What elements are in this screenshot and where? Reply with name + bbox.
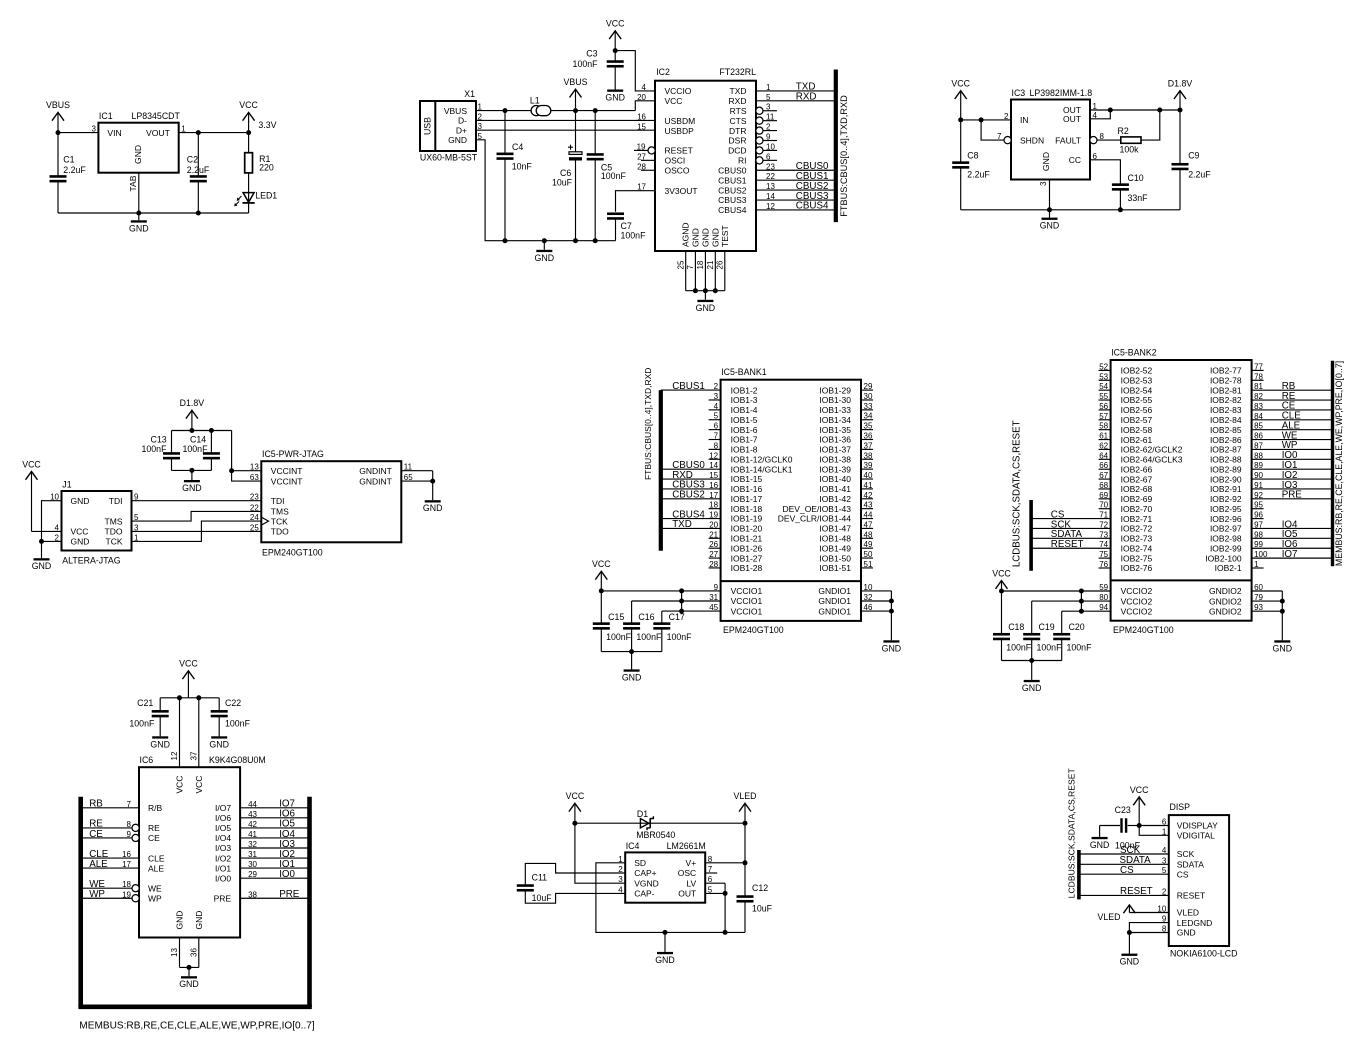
wire D- to USBDM [476, 119, 655, 121]
svg-text:23: 23 [250, 493, 259, 502]
svg-text:PRE: PRE [1282, 490, 1303, 501]
svg-text:3: 3 [1039, 181, 1048, 186]
svg-text:29: 29 [864, 382, 873, 391]
svg-text:C3: C3 [586, 49, 597, 59]
bus label MEMBUS bottom [79, 1021, 315, 1032]
svg-text:IOB2-57: IOB2-57 [1121, 415, 1153, 425]
svg-text:VCC: VCC [194, 776, 204, 794]
pin numbers IC3 [997, 102, 1104, 186]
bus label MEMBUS right [1334, 361, 1344, 566]
svg-text:20: 20 [637, 93, 646, 102]
wire X1 GND down [476, 140, 616, 243]
svg-text:PRE: PRE [214, 893, 232, 903]
svg-text:IOB2-66: IOB2-66 [1121, 464, 1153, 474]
svg-text:100nF: 100nF [142, 444, 168, 454]
svg-text:12: 12 [766, 202, 775, 211]
svg-text:GND: GND [882, 643, 902, 653]
ground symbol at DISP [1120, 954, 1140, 967]
resistor R2 100k [1097, 110, 1160, 155]
power flag VCC at IC6 [179, 659, 198, 698]
svg-text:1: 1 [181, 124, 186, 133]
handshake stub pins RTS CTS DTR DSR DCD RI [756, 103, 777, 115]
svg-text:37: 37 [189, 751, 198, 760]
svg-text:SHDN: SHDN [1020, 135, 1044, 145]
svg-text:8: 8 [714, 441, 719, 450]
ground symbol BANK2 caps [1022, 680, 1042, 693]
svg-text:WE: WE [148, 883, 162, 893]
svg-text:IC5-BANK2: IC5-BANK2 [1111, 348, 1157, 358]
wire gnd rail block C [961, 180, 1180, 213]
svg-text:10: 10 [864, 583, 873, 592]
svg-text:IOB2-67: IOB2-67 [1121, 474, 1153, 484]
pin bubbles and numbers IC2 left [637, 83, 656, 192]
wire VCC to IC6 pins 12 37 [160, 695, 219, 767]
svg-text:86: 86 [1254, 432, 1263, 441]
svg-text:ALE: ALE [148, 863, 164, 873]
svg-text:32: 32 [864, 593, 873, 602]
bus MEMBUS U shape [78, 797, 311, 1007]
svg-text:C14: C14 [190, 435, 206, 445]
svg-text:IOB1-8: IOB1-8 [731, 445, 758, 455]
svg-text:4: 4 [642, 83, 647, 92]
svg-text:GNDINT: GNDINT [359, 466, 392, 476]
svg-text:IOB1-36: IOB1-36 [819, 435, 851, 445]
svg-text:IOB1-39: IOB1-39 [819, 464, 851, 474]
svg-text:GND: GND [655, 955, 675, 965]
svg-text:CBUS2: CBUS2 [718, 185, 747, 195]
svg-text:RB: RB [89, 799, 103, 810]
wire OUT net to D1.8V [1090, 108, 1183, 119]
svg-text:RE: RE [148, 823, 160, 833]
svg-text:75: 75 [1099, 550, 1108, 559]
wire RXD net label [756, 92, 836, 103]
IC6 ground pins 13 36 [170, 938, 199, 977]
svg-text:MEMBUS:RB,RE,CE,CLE,ALE,WE,WP,: MEMBUS:RB,RE,CE,CLE,ALE,WE,WP,PRE,IO[0..… [79, 1021, 315, 1032]
power flag VCC at BANK2 [992, 568, 1011, 591]
svg-text:IOB2-82: IOB2-82 [1210, 395, 1242, 405]
svg-text:54: 54 [1099, 382, 1108, 391]
svg-text:CBUS4: CBUS4 [718, 205, 747, 215]
capacitor C13 100nF [142, 431, 181, 471]
svg-text:C2: C2 [187, 155, 198, 165]
svg-text:12: 12 [709, 451, 718, 460]
svg-text:IOB2-92: IOB2-92 [1210, 494, 1242, 504]
svg-text:IOB1-21: IOB1-21 [731, 534, 763, 544]
IC6 left pin wires [81, 799, 139, 810]
svg-text:88: 88 [1254, 451, 1263, 460]
wire VCC to IN [958, 117, 1011, 122]
svg-text:25: 25 [250, 523, 259, 532]
IC6 right pin wires [240, 799, 309, 810]
svg-text:IOB2-83: IOB2-83 [1210, 405, 1242, 415]
svg-text:20: 20 [709, 520, 718, 529]
wire VBUS to VIN [56, 130, 99, 135]
svg-text:IOB1-14/GCLK1: IOB1-14/GCLK1 [731, 464, 793, 474]
svg-text:VLED: VLED [734, 791, 757, 801]
wire D+ to USBDP [476, 129, 655, 131]
svg-text:C22: C22 [225, 698, 241, 708]
svg-text:C11: C11 [532, 873, 548, 883]
svg-text:GND: GND [179, 979, 199, 989]
svg-text:IOB2-73: IOB2-73 [1121, 534, 1153, 544]
svg-text:LM2661M: LM2661M [667, 841, 706, 851]
svg-text:IC1: IC1 [99, 111, 113, 121]
svg-text:IOB2-76: IOB2-76 [1121, 563, 1153, 573]
svg-text:ALTERA-JTAG: ALTERA-JTAG [62, 556, 120, 566]
svg-text:C1: C1 [63, 155, 74, 165]
svg-text:LCDBUS:SCK,SDATA,CS,RESET: LCDBUS:SCK,SDATA,CS,RESET [1066, 768, 1076, 899]
svg-text:7: 7 [686, 265, 695, 270]
svg-text:37: 37 [864, 441, 873, 450]
svg-text:7: 7 [127, 800, 132, 809]
svg-text:GND: GND [1177, 928, 1196, 938]
svg-text:7: 7 [714, 432, 719, 441]
svg-text:IOB1-47: IOB1-47 [819, 524, 851, 534]
capacitor C7 100nF [607, 212, 646, 240]
svg-text:TXD: TXD [672, 519, 692, 530]
wire GNDIO1 nets [861, 583, 894, 640]
svg-text:2.2uF: 2.2uF [1188, 170, 1211, 180]
ground symbol GNDIO1 [882, 640, 902, 653]
svg-text:52: 52 [1099, 362, 1108, 371]
ground symbol under C3 [605, 90, 625, 103]
capacitor C12 10uF [737, 823, 773, 932]
svg-text:IOB1-7: IOB1-7 [731, 435, 758, 445]
svg-text:IOB2-68: IOB2-68 [1121, 484, 1153, 494]
svg-text:VDIGITAL: VDIGITAL [1177, 831, 1215, 841]
svg-text:FTBUS:CBUS[0..4],TXD,RXD: FTBUS:CBUS[0..4],TXD,RXD [643, 368, 653, 480]
svg-text:IC2: IC2 [656, 67, 670, 77]
svg-text:45: 45 [709, 603, 718, 612]
svg-text:C19: C19 [1039, 622, 1055, 632]
capacitor C22 100nF [211, 698, 251, 737]
svg-text:2.2uF: 2.2uF [967, 170, 990, 180]
svg-text:57: 57 [1099, 412, 1108, 421]
svg-text:19: 19 [122, 890, 131, 899]
bus FTBUS bar at BANK1 [659, 390, 663, 551]
bus label FTBUS:CBUS[0..4],TXD,RXD [839, 95, 849, 217]
svg-text:GND: GND [605, 93, 625, 103]
svg-text:C6: C6 [560, 168, 571, 178]
wire VBUS net [476, 101, 655, 113]
pin 7 OSC stub [705, 872, 717, 874]
wire D1 cathode to VLED [650, 821, 747, 826]
svg-text:CBUS0: CBUS0 [718, 165, 747, 175]
svg-text:VBUS: VBUS [564, 77, 588, 87]
svg-text:VCC: VCC [239, 100, 258, 110]
svg-text:IOB1-27: IOB1-27 [731, 553, 763, 563]
svg-text:IO7: IO7 [1282, 549, 1298, 560]
svg-text:GNDIO2: GNDIO2 [1209, 606, 1242, 616]
svg-text:98: 98 [1254, 530, 1263, 539]
svg-text:GND: GND [700, 228, 710, 247]
LED1 [234, 173, 277, 213]
svg-text:55: 55 [1099, 392, 1108, 401]
svg-text:VCC: VCC [22, 459, 41, 469]
svg-text:IOB2-52: IOB2-52 [1121, 366, 1153, 376]
power flag VLED at DISP [1098, 905, 1169, 922]
svg-text:91: 91 [1254, 481, 1263, 490]
svg-text:39: 39 [864, 461, 873, 470]
svg-text:CBUS1: CBUS1 [672, 381, 705, 392]
wire VCC to VDISPLAY VDIGITAL [1137, 823, 1169, 835]
resistor R1 220 [245, 133, 274, 173]
svg-text:74: 74 [1099, 540, 1108, 549]
svg-text:RESET: RESET [1051, 539, 1084, 550]
wire SDATA net [1079, 855, 1169, 866]
svg-text:97: 97 [1254, 520, 1263, 529]
capacitor C10 33nF [1112, 173, 1148, 210]
svg-text:GND: GND [32, 561, 52, 571]
svg-text:67: 67 [1099, 471, 1108, 480]
svg-text:81: 81 [1254, 382, 1263, 391]
svg-text:C12: C12 [752, 883, 768, 893]
svg-text:CBUS3: CBUS3 [718, 195, 747, 205]
svg-text:CBUS1: CBUS1 [718, 175, 747, 185]
svg-text:23: 23 [766, 162, 775, 171]
svg-text:GND: GND [1090, 840, 1110, 850]
svg-text:RTS: RTS [730, 106, 747, 116]
capacitor C1 2.2uF [50, 133, 87, 213]
svg-text:VLED: VLED [1177, 908, 1199, 918]
svg-text:38: 38 [248, 890, 257, 899]
svg-text:93: 93 [1254, 603, 1263, 612]
svg-text:GND: GND [150, 739, 170, 749]
svg-text:84: 84 [1254, 412, 1263, 421]
svg-text:IOB2-96: IOB2-96 [1210, 514, 1242, 524]
svg-text:VCCINT: VCCINT [271, 466, 303, 476]
wire TMS [132, 511, 262, 521]
svg-text:72: 72 [1099, 520, 1108, 529]
svg-text:IOB1-50: IOB1-50 [819, 553, 851, 563]
svg-text:100nF: 100nF [1067, 643, 1093, 653]
svg-text:GND: GND [696, 303, 716, 313]
capacitor C9 2.2uF [1172, 110, 1212, 210]
svg-text:VCCIO1: VCCIO1 [731, 606, 763, 616]
svg-text:33nF: 33nF [1128, 193, 1149, 203]
svg-text:CE: CE [148, 833, 160, 843]
svg-text:TDO: TDO [105, 527, 123, 537]
wire TDI [132, 500, 262, 502]
svg-text:43: 43 [864, 501, 873, 510]
capacitor C21 100nF [129, 698, 168, 737]
svg-text:LCDBUS:SCK,SDATA,CS,RESET: LCDBUS:SCK,SDATA,CS,RESET [1012, 420, 1023, 567]
svg-text:89: 89 [1254, 461, 1263, 470]
svg-text:D1.8V: D1.8V [180, 398, 205, 408]
svg-text:3V3OUT: 3V3OUT [665, 186, 698, 196]
power flag VBUS at C6 [564, 77, 588, 111]
power flag VCC 3.3V [239, 100, 276, 132]
svg-text:WP: WP [89, 889, 105, 900]
svg-text:VCC: VCC [951, 79, 970, 89]
svg-text:IOB1-37: IOB1-37 [819, 445, 851, 455]
wire LV OUT tie [705, 883, 727, 932]
svg-text:10: 10 [766, 142, 775, 151]
svg-text:IOB1-34: IOB1-34 [819, 415, 851, 425]
wire TCK [132, 521, 262, 541]
svg-text:85: 85 [1254, 422, 1263, 431]
svg-text:VCCIO2: VCCIO2 [1121, 606, 1153, 616]
wire SD to gnd rail [596, 863, 745, 935]
capacitor C4 10nF [497, 111, 533, 241]
svg-text:IOB2-70: IOB2-70 [1121, 504, 1153, 514]
wire caps gnd BANK2 [1002, 658, 1062, 680]
connector X1 USB UX60-MB-5ST [420, 89, 483, 163]
power flag D1.8V [1168, 79, 1193, 111]
svg-text:VCC: VCC [71, 527, 89, 537]
svg-text:VOUT: VOUT [146, 128, 171, 138]
svg-text:30: 30 [248, 860, 257, 869]
svg-text:GND: GND [622, 672, 642, 682]
svg-text:IOB2-91: IOB2-91 [1210, 484, 1242, 494]
svg-text:IOB1-30: IOB1-30 [819, 395, 851, 405]
svg-text:IOB2-88: IOB2-88 [1210, 455, 1242, 465]
svg-text:IOB1-40: IOB1-40 [819, 474, 851, 484]
BANK2 left pins [1099, 362, 1111, 371]
svg-text:IOB1-4: IOB1-4 [731, 405, 758, 415]
svg-text:LV: LV [686, 878, 696, 888]
svg-text:TXD: TXD [730, 86, 747, 96]
svg-text:OUT: OUT [678, 889, 696, 899]
svg-text:83: 83 [1254, 402, 1263, 411]
svg-text:3: 3 [714, 392, 719, 401]
svg-text:100nF: 100nF [225, 719, 251, 729]
svg-text:OSCI: OSCI [665, 156, 686, 166]
svg-text:IOB2-87: IOB2-87 [1210, 445, 1242, 455]
svg-text:16: 16 [122, 850, 131, 859]
svg-text:D+: D+ [456, 125, 467, 135]
svg-text:GNDINT: GNDINT [359, 476, 392, 486]
wire caps gnd BANK1 [601, 649, 662, 669]
svg-text:GND: GND [535, 253, 555, 263]
svg-text:VLED: VLED [1098, 912, 1121, 922]
svg-text:100nF: 100nF [667, 632, 693, 642]
svg-text:GNDIO1: GNDIO1 [818, 596, 851, 606]
svg-text:80: 80 [1099, 593, 1108, 602]
svg-text:VBUS: VBUS [46, 100, 70, 110]
power flag VCC at J1 [22, 459, 61, 531]
svg-text:1: 1 [766, 83, 771, 92]
svg-text:IOB1-42: IOB1-42 [819, 494, 851, 504]
svg-text:TDI: TDI [109, 496, 123, 506]
svg-text:33: 33 [864, 402, 873, 411]
svg-text:IOB2-62/GCLK2: IOB2-62/GCLK2 [1121, 445, 1183, 455]
svg-text:2: 2 [1004, 112, 1009, 121]
svg-text:2: 2 [714, 382, 719, 391]
svg-text:5: 5 [766, 93, 771, 102]
ground symbol GNDINT [423, 500, 443, 513]
svg-text:IOB2-90: IOB2-90 [1210, 474, 1242, 484]
svg-text:60: 60 [1254, 583, 1263, 592]
svg-text:C13: C13 [151, 435, 167, 445]
capacitor C2 2.2uF [187, 133, 210, 213]
ground symbol under C13 C14 [182, 480, 202, 493]
svg-text:I/O2: I/O2 [215, 853, 231, 863]
svg-text:RESET: RESET [1177, 891, 1205, 901]
svg-text:59: 59 [1099, 583, 1108, 592]
svg-text:IN: IN [1020, 115, 1029, 125]
svg-text:GND: GND [423, 503, 443, 513]
svg-text:MEMBUS:RB,RE,CE,CLE,ALE,WE,WP,: MEMBUS:RB,RE,CE,CLE,ALE,WE,WP,PRE,IO[0..… [1334, 361, 1344, 566]
svg-text:LP3982IMM-1.8: LP3982IMM-1.8 [1030, 88, 1093, 98]
svg-text:IOB1-15: IOB1-15 [731, 474, 763, 484]
svg-text:25: 25 [677, 260, 686, 269]
svg-text:64: 64 [1099, 451, 1108, 460]
inductor L1 [530, 95, 551, 115]
svg-text:4: 4 [618, 885, 623, 894]
BANK1 right stub pins [861, 382, 873, 391]
svg-text:100nF: 100nF [601, 171, 627, 181]
svg-text:95: 95 [1254, 501, 1263, 510]
capacitor C14 100nF [183, 431, 220, 471]
svg-text:AGND: AGND [681, 222, 691, 247]
svg-text:GND: GND [71, 496, 90, 506]
pin 1 label IC1 VOUT [181, 124, 186, 133]
svg-text:GND: GND [1040, 221, 1060, 231]
svg-text:OSC: OSC [678, 868, 696, 878]
svg-text:CBUS4: CBUS4 [796, 201, 829, 212]
svg-text:IOB2-74: IOB2-74 [1121, 543, 1153, 553]
bus LCDBUS bar at DISP [1077, 850, 1081, 899]
IC1 LP8345CDT [98, 111, 180, 173]
svg-text:GNDIO2: GNDIO2 [1209, 596, 1242, 606]
pin 3 label IC1 VIN [91, 124, 96, 133]
ground symbol block C [1040, 210, 1060, 231]
svg-text:36: 36 [864, 432, 873, 441]
svg-text:21: 21 [706, 260, 715, 269]
svg-text:I/O4: I/O4 [215, 833, 231, 843]
IC3 LP3982IMM-1.8 [1011, 88, 1092, 180]
svg-text:51: 51 [864, 560, 873, 569]
svg-text:C7: C7 [621, 221, 632, 231]
svg-text:RESET: RESET [665, 146, 693, 156]
svg-text:GND: GND [448, 135, 467, 145]
svg-text:48: 48 [864, 530, 873, 539]
svg-text:C18: C18 [1008, 622, 1024, 632]
power flag D1.8V block D [180, 398, 205, 430]
svg-text:IOB1-5: IOB1-5 [731, 415, 758, 425]
svg-text:SDATA: SDATA [1177, 860, 1204, 870]
svg-text:18: 18 [122, 880, 131, 889]
ground symbol under C22 [209, 736, 229, 749]
svg-text:22: 22 [250, 503, 259, 512]
svg-text:VCC: VCC [592, 559, 611, 569]
svg-text:J1: J1 [62, 480, 71, 490]
svg-text:VCCIO1: VCCIO1 [731, 586, 763, 596]
svg-text:34: 34 [864, 412, 873, 421]
svg-text:2: 2 [766, 123, 771, 132]
svg-text:99: 99 [1254, 540, 1263, 549]
svg-text:C10: C10 [1128, 173, 1144, 183]
svg-text:IOB2-72: IOB2-72 [1121, 524, 1153, 534]
svg-text:21: 21 [709, 530, 718, 539]
capacitor C5 100nF [587, 111, 627, 241]
svg-text:IOB2-69: IOB2-69 [1121, 494, 1153, 504]
bus MEMBUS bar right [1331, 361, 1334, 567]
bus LCDBUS bar at BANK2 [1029, 500, 1033, 571]
svg-text:CS: CS [1120, 865, 1134, 876]
ground symbol block A [129, 213, 149, 233]
pin TAB of IC1 [128, 173, 139, 213]
capacitor C20 100nF [1053, 611, 1092, 660]
svg-text:IC5-BANK1: IC5-BANK1 [721, 367, 767, 377]
svg-text:EPM240GT100: EPM240GT100 [723, 625, 784, 635]
wire RESET net [1079, 886, 1169, 897]
svg-text:CAP+: CAP+ [634, 868, 656, 878]
svg-text:18: 18 [696, 260, 705, 269]
power flag VLED [734, 791, 757, 823]
svg-text:RXD: RXD [796, 92, 817, 103]
